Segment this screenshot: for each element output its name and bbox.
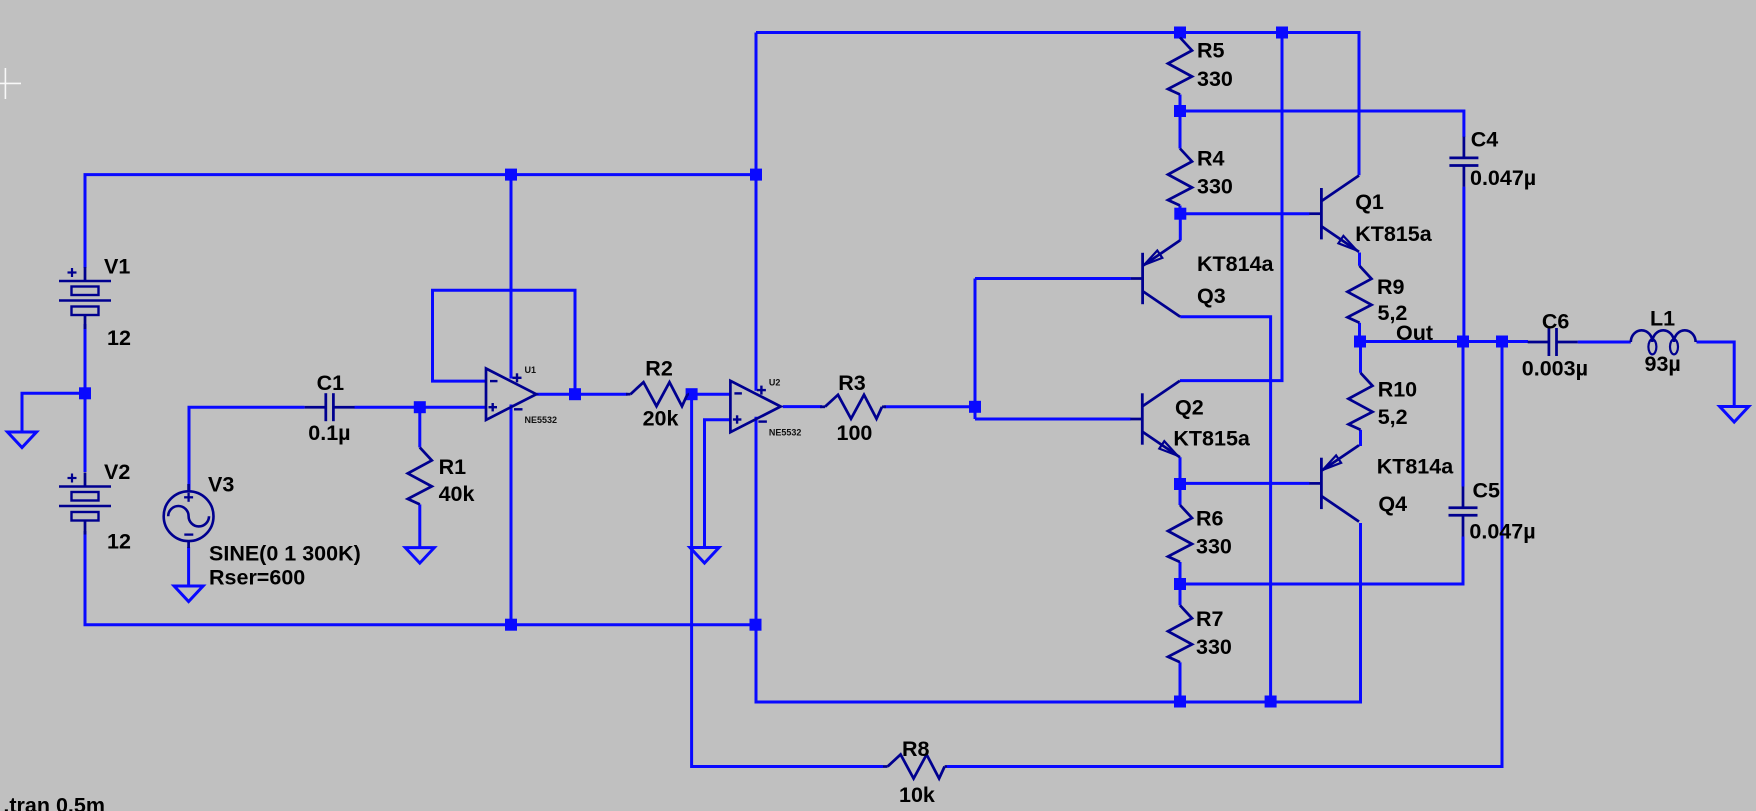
- wire Q3 collector to V- rail: [1180, 317, 1270, 702]
- wire R3 to driver bases node: [884, 405, 975, 408]
- label 0.047u of C5: [1469, 520, 1535, 544]
- wire R2 to U2 minus input: [688, 393, 731, 396]
- resistor R3: [820, 395, 886, 419]
- wire to Q3 base: [975, 277, 1131, 280]
- svg-text:Q4: Q4: [1378, 492, 1407, 516]
- svg-text:0.047µ: 0.047µ: [1469, 520, 1535, 544]
- svg-text:R7: R7: [1196, 607, 1224, 631]
- svg-text:Q1: Q1: [1355, 190, 1384, 214]
- label R10: [1378, 378, 1417, 402]
- svg-text:R1: R1: [439, 455, 467, 479]
- node Q2 emitter/R6/Q4 base: [1174, 478, 1186, 490]
- wire R1 top hang: [418, 407, 421, 447]
- wire R7 bottom stub: [1179, 662, 1182, 701]
- svg-text:L1: L1: [1650, 307, 1675, 331]
- wire V+ top rail: [756, 33, 1359, 176]
- label 93u of L1: [1645, 352, 1681, 376]
- node R6/R7/C5: [1174, 578, 1186, 590]
- wire R6 top stub: [1179, 484, 1182, 505]
- label Q2: [1175, 396, 1204, 420]
- wire R7 top stub: [1179, 584, 1182, 605]
- wire R4 node to Q1 base: [1180, 212, 1309, 215]
- svg-text:U2: U2: [769, 377, 781, 387]
- label 100 of R3: [837, 421, 873, 445]
- wire L1 to ground: [1697, 342, 1735, 407]
- resistor R4: [1168, 149, 1192, 206]
- svg-text:R10: R10: [1378, 378, 1417, 402]
- resistor R6: [1168, 505, 1192, 562]
- wire U1 output to R2: [537, 393, 628, 396]
- svg-text:40k: 40k: [439, 482, 475, 506]
- wire V+ rail from V1 top: [85, 175, 756, 268]
- label 0.1u of C1: [308, 421, 350, 445]
- svg-text:330: 330: [1196, 635, 1232, 659]
- resistor R9: [1348, 266, 1372, 323]
- svg-text:R4: R4: [1197, 147, 1225, 171]
- ground under V3: [174, 586, 203, 602]
- svg-text:Out: Out: [1396, 321, 1433, 345]
- op-amp U2: [730, 381, 780, 432]
- wire V3 bottom to ground: [187, 547, 190, 586]
- label R2: [645, 357, 673, 381]
- crosshair cursor: [0, 68, 21, 99]
- label 0.003u of C6: [1522, 357, 1588, 381]
- wire U2 output to R3: [783, 405, 822, 408]
- wire Out node to C5: [1462, 342, 1465, 487]
- label Q1: [1355, 190, 1384, 214]
- wire V1 to V2 link: [84, 324, 87, 472]
- svg-text:93µ: 93µ: [1645, 352, 1681, 376]
- node R3 output/driver bases: [969, 401, 981, 413]
- wire Q2 collector to V+ rail: [1180, 33, 1282, 381]
- svg-text:R6: R6: [1196, 507, 1224, 531]
- node R7 bottom on V- rail: [1174, 696, 1186, 708]
- label NE5532 of U1: [525, 415, 558, 425]
- wire U1 feedback loop: [433, 290, 576, 394]
- svg-text:.tran 0.5m: .tran 0.5m: [3, 794, 105, 811]
- wire Q2 emitter to R6 node: [1179, 457, 1182, 484]
- capacitor C1: [305, 393, 355, 421]
- resistor R7: [1168, 605, 1192, 662]
- svg-text:C1: C1: [317, 371, 345, 395]
- svg-text:C4: C4: [1471, 128, 1499, 152]
- node U1 V+ tap on rail: [505, 169, 517, 181]
- wire U2 V+ power drop: [755, 33, 758, 391]
- svg-text:330: 330: [1196, 535, 1232, 559]
- label 12 of V1: [107, 326, 131, 350]
- resistor R10: [1349, 373, 1373, 430]
- svg-text:NE5532: NE5532: [525, 415, 558, 425]
- battery V1: [59, 267, 111, 329]
- svg-text:V1: V1: [104, 255, 130, 279]
- wire ground branch at V1/V2 midpoint: [22, 393, 85, 431]
- svg-text:Q3: Q3: [1197, 284, 1226, 308]
- node R5 top on V+ rail: [1174, 27, 1186, 39]
- label V3: [208, 473, 234, 497]
- label 330 of R7: [1196, 635, 1232, 659]
- node R4/Q3 emitter/Q1 base: [1174, 208, 1186, 220]
- svg-text:10k: 10k: [899, 783, 935, 807]
- label C1: [317, 371, 345, 395]
- svg-text:NE5532: NE5532: [769, 427, 802, 437]
- wire V2 bottom to lower rail: [85, 531, 756, 625]
- label L1: [1650, 307, 1675, 331]
- transistor Q3: [1131, 240, 1181, 316]
- svg-text:R5: R5: [1197, 39, 1225, 63]
- wire U2 V- power to bottom corner: [756, 417, 1361, 702]
- wire C4 to Out: [1462, 187, 1465, 342]
- wire Q1 emitter to R9: [1358, 253, 1361, 266]
- svg-text:KT814a: KT814a: [1197, 252, 1275, 276]
- label 40k of R1: [439, 482, 475, 506]
- svg-text:Rser=600: Rser=600: [209, 566, 305, 590]
- inductor L1: [1631, 330, 1696, 354]
- svg-text:V2: V2: [104, 460, 130, 484]
- svg-text:12: 12: [107, 326, 131, 350]
- label R9: [1377, 275, 1405, 299]
- node U1 output/feedback: [569, 388, 581, 400]
- wire U2 plus input to ground: [705, 420, 731, 548]
- node R2/U2- input/R8: [686, 388, 698, 400]
- wire R6/R7 node to C5: [1180, 537, 1463, 585]
- node V1/V2 ground tap: [79, 387, 91, 399]
- svg-text:R9: R9: [1377, 275, 1405, 299]
- wire Out line: [1360, 340, 1528, 343]
- wire driver base column: [974, 279, 977, 420]
- svg-text:V3: V3: [208, 473, 234, 497]
- transistor Q4: [1309, 445, 1359, 521]
- wire R9 to Out node: [1358, 323, 1361, 342]
- label R1: [439, 455, 467, 479]
- svg-text:12: 12: [107, 530, 131, 554]
- resistor R2: [626, 382, 689, 406]
- svg-text:KT815a: KT815a: [1355, 222, 1433, 246]
- label 12 of V2: [107, 530, 131, 554]
- label SINE of V3: [209, 542, 361, 566]
- svg-text:330: 330: [1197, 67, 1233, 91]
- label KT814a of Q3: [1197, 252, 1275, 276]
- label R7: [1196, 607, 1224, 631]
- node Q2 collector tie on V+ rail: [1276, 27, 1288, 39]
- node U2 V+ tap on rail: [750, 169, 762, 181]
- label R3: [838, 371, 866, 395]
- wire U1 V- power pin to bottom rail: [510, 405, 513, 625]
- svg-text:KT815a: KT815a: [1173, 427, 1251, 451]
- wire C6 to L1: [1578, 341, 1631, 344]
- svg-text:C6: C6: [1542, 309, 1570, 333]
- ground under U2 plus input: [690, 548, 719, 564]
- label KT815a of Q2: [1173, 427, 1251, 451]
- svg-text:R8: R8: [902, 737, 930, 761]
- label R8: [902, 737, 930, 761]
- resistor R5: [1168, 38, 1192, 95]
- label V2: [104, 460, 130, 484]
- label Rser of V3: [209, 566, 305, 590]
- label Q3: [1197, 284, 1226, 308]
- ground at V1/V2 tap: [8, 432, 37, 448]
- transistor Q1: [1309, 176, 1359, 252]
- wire Q3 emitter to R4 node: [1179, 214, 1182, 241]
- label R6: [1196, 507, 1224, 531]
- svg-text:100: 100: [837, 421, 873, 445]
- wire R5/R4 node to C4: [1180, 111, 1464, 137]
- wire V3 top to C1 input: [189, 407, 305, 491]
- capacitor C5: [1449, 487, 1478, 537]
- wire R8 feedback loop left: [692, 394, 883, 766]
- node R5/R4/C4: [1174, 105, 1186, 117]
- wire R6 node to Q4 base: [1180, 482, 1310, 485]
- label .tran directive: [3, 794, 105, 811]
- transistor Q2: [1130, 381, 1180, 457]
- voltage source V3: [164, 484, 214, 548]
- label 330 of R5: [1197, 67, 1233, 91]
- wire C1 to U1 plus input: [355, 406, 487, 409]
- wire R1 bottom to ground: [418, 504, 421, 547]
- svg-text:0.1µ: 0.1µ: [308, 421, 350, 445]
- wire R4 bottom stub: [1179, 206, 1182, 214]
- node R9/R10 Out: [1354, 336, 1366, 348]
- label 20k of R2: [643, 407, 679, 431]
- label NE5532 of U2: [769, 427, 802, 437]
- svg-text:KT814a: KT814a: [1377, 455, 1455, 479]
- node R8 tap on Out line: [1496, 336, 1508, 348]
- label C4: [1471, 128, 1499, 152]
- wire Out node to R10: [1359, 342, 1362, 373]
- wire U1 V+ power pin drop: [510, 175, 513, 379]
- svg-text:0.003µ: 0.003µ: [1522, 357, 1588, 381]
- node C1/R1/U1+ input: [414, 401, 426, 413]
- svg-text:R3: R3: [838, 371, 866, 395]
- wire to Q2 base: [975, 418, 1131, 421]
- svg-text:R2: R2: [645, 357, 673, 381]
- capacitor C4: [1449, 137, 1478, 187]
- resistor R1: [408, 447, 432, 504]
- label 0.047u of C4: [1470, 166, 1536, 190]
- svg-text:330: 330: [1197, 175, 1233, 199]
- op-amp U1: [486, 369, 536, 420]
- node C4/C5 column on Out line: [1457, 336, 1469, 348]
- svg-text:SINE(0 1 300K): SINE(0 1 300K): [209, 542, 361, 566]
- node U2 V- tap on lower rail: [750, 619, 762, 631]
- label U1: [525, 365, 537, 375]
- wire R5 to R4: [1179, 95, 1182, 149]
- label 330 of R6: [1196, 535, 1232, 559]
- label C6: [1542, 309, 1570, 333]
- label V1: [104, 255, 130, 279]
- svg-text:Q2: Q2: [1175, 396, 1204, 420]
- label 330 of R4: [1197, 175, 1233, 199]
- node Q3 collector on V- rail: [1265, 696, 1277, 708]
- svg-text:U1: U1: [525, 365, 537, 375]
- label 5,2 of R10: [1378, 405, 1408, 429]
- label R4: [1197, 147, 1225, 171]
- resistor R8: [883, 755, 947, 779]
- label KT815a of Q1: [1355, 222, 1433, 246]
- capacitor C6: [1528, 328, 1578, 356]
- wire R10 to Q4 emitter: [1359, 430, 1362, 446]
- svg-text:20k: 20k: [643, 407, 679, 431]
- ground under R1: [405, 548, 434, 564]
- label 5,2 of R9: [1378, 301, 1408, 325]
- label R5: [1197, 39, 1225, 63]
- label U2: [769, 377, 781, 387]
- wire R5 top stub: [1179, 33, 1182, 38]
- ground after L1: [1720, 407, 1749, 423]
- svg-text:5,2: 5,2: [1378, 405, 1408, 429]
- label C5: [1473, 479, 1501, 503]
- svg-text:0.047µ: 0.047µ: [1470, 166, 1536, 190]
- label Out net: [1396, 321, 1433, 345]
- svg-text:C5: C5: [1473, 479, 1501, 503]
- node U1 V- tap on lower rail: [505, 619, 517, 631]
- label KT814a of Q4: [1377, 455, 1455, 479]
- battery V2: [59, 473, 111, 535]
- label 10k of R8: [899, 783, 935, 807]
- wire R8 feedback loop right: [947, 342, 1502, 767]
- wire R6 bottom stub: [1179, 562, 1182, 584]
- label Q4: [1378, 492, 1407, 516]
